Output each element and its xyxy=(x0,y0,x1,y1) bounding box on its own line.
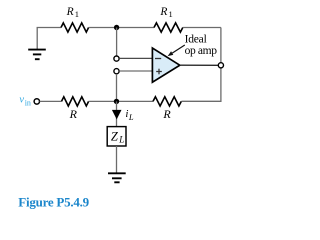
wire vin to R xyxy=(40,100,62,102)
svg-text:L: L xyxy=(128,112,134,122)
node noninverting input terminal xyxy=(114,69,119,74)
svg-text:op amp: op amp xyxy=(185,45,218,57)
wire right rail lower (output node down to bottom corner) xyxy=(182,68,221,101)
wire noninverting terminal down to bottom junction xyxy=(116,74,118,101)
svg-text:Z: Z xyxy=(111,130,119,144)
wire R to bottom junction to R xyxy=(89,100,153,102)
load ZL box xyxy=(107,127,126,146)
wire inverting terminal to op-amp xyxy=(119,57,152,59)
svg-text:L: L xyxy=(118,135,124,145)
wire middle drop from top junction to inverting terminal xyxy=(116,28,118,56)
wire bottom junction down to ZL xyxy=(116,101,118,126)
op-amp minus sign xyxy=(155,58,161,60)
node inverting input terminal xyxy=(114,56,119,61)
ground (bottom) xyxy=(108,173,126,182)
annotation arrow to op-amp xyxy=(172,45,185,53)
svg-text:1: 1 xyxy=(75,9,79,19)
wire ZL to ground xyxy=(116,146,118,173)
svg-text:Figure P5.4.9: Figure P5.4.9 xyxy=(18,194,89,209)
wire noninverting terminal to op-amp xyxy=(119,70,152,72)
resistor R (bottom right) xyxy=(153,97,181,106)
node vin terminal xyxy=(34,99,39,104)
op-amp plus sign xyxy=(156,69,162,75)
node bottom junction xyxy=(114,99,119,104)
svg-text:R: R xyxy=(66,6,74,18)
resistor R1 (top left) xyxy=(61,23,89,32)
svg-text:Ideal: Ideal xyxy=(185,34,207,46)
wire top middle xyxy=(89,27,154,29)
current arrow iL xyxy=(112,110,122,120)
wire right rail upper (top corner down to output node) xyxy=(220,28,222,63)
wire top-left from ground corner to R1 xyxy=(37,28,61,50)
node output terminal xyxy=(218,63,223,68)
ground (top left) xyxy=(28,50,46,60)
resistor R1 (top right) xyxy=(154,23,183,32)
svg-text:R: R xyxy=(159,6,167,18)
node top junction xyxy=(114,25,119,30)
wire top right to right rail xyxy=(183,27,221,29)
svg-text:in: in xyxy=(25,98,31,107)
op-amp U1 xyxy=(152,48,179,82)
svg-text:R: R xyxy=(69,107,78,121)
svg-text:1: 1 xyxy=(169,9,173,19)
svg-text:v: v xyxy=(19,95,24,106)
resistor R (bottom left) xyxy=(62,97,89,106)
svg-text:R: R xyxy=(162,107,171,121)
wire op-amp output to output terminal xyxy=(180,64,219,66)
